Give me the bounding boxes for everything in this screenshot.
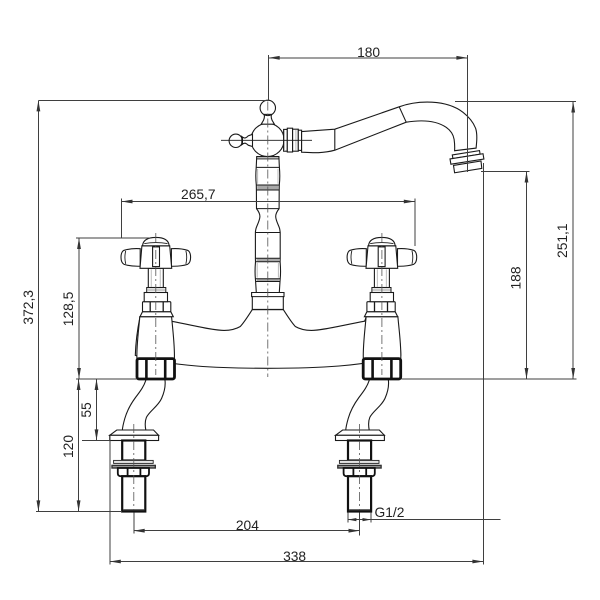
dim G1/2 (thread size) xyxy=(348,505,501,522)
dim 372,3 (left overall height) xyxy=(21,100,41,511)
dim 204 (tail centres) xyxy=(134,513,360,536)
side knob ball xyxy=(229,134,242,147)
finial neck xyxy=(261,114,274,124)
centrelines xyxy=(267,102,269,378)
svg-text:55: 55 xyxy=(79,402,94,418)
deck reference line xyxy=(76,378,576,380)
aerator xyxy=(450,151,484,173)
dim 188 xyxy=(481,172,530,380)
barrel shading xyxy=(257,169,278,278)
turned grooves (gray) xyxy=(257,185,278,190)
svg-text:188: 188 xyxy=(509,266,524,289)
svg-text:204: 204 xyxy=(236,518,259,533)
svg-text:120: 120 xyxy=(61,435,76,458)
right handle + valve column xyxy=(347,237,417,358)
central column assembly xyxy=(221,100,484,309)
svg-text:128,5: 128,5 xyxy=(61,291,76,326)
cross wings xyxy=(121,249,140,267)
handle hub xyxy=(140,246,172,268)
dim 128,5 xyxy=(61,238,150,379)
svg-text:338: 338 xyxy=(283,549,306,564)
FAUCET BODY xyxy=(110,100,484,511)
left mounting nut xyxy=(137,359,175,379)
left supply leg xyxy=(122,380,165,431)
spout axis line xyxy=(221,139,312,141)
top tangent extension line xyxy=(38,99,268,101)
dim 180 (top) xyxy=(269,45,468,172)
column baluster xyxy=(252,157,284,310)
dim 265,7 xyxy=(122,187,415,246)
dim 55 xyxy=(79,379,109,440)
bridge body beam xyxy=(135,310,401,369)
spout collar rings xyxy=(284,129,288,151)
right tail assembly xyxy=(336,430,385,512)
spout joint lines xyxy=(334,129,336,150)
cross front arm xyxy=(153,247,160,267)
valve body sphere xyxy=(251,123,284,156)
column section lines xyxy=(252,157,284,310)
right supply leg xyxy=(346,380,389,431)
dim 338 (overall width) xyxy=(110,163,484,564)
dim 120 xyxy=(36,379,122,511)
left handle + valve column xyxy=(121,237,191,358)
svg-text:265,7: 265,7 xyxy=(181,187,216,202)
svg-text:180: 180 xyxy=(357,45,380,60)
svg-text:251,1: 251,1 xyxy=(555,223,570,258)
right mounting nut xyxy=(363,359,401,379)
ball finial xyxy=(260,100,275,115)
dim 251,1 (right overall) xyxy=(455,102,576,380)
side knob connector xyxy=(242,134,253,146)
svg-text:G1/2: G1/2 xyxy=(375,505,405,520)
spout tube xyxy=(302,102,477,153)
left tail assembly xyxy=(110,430,159,512)
handle dome xyxy=(143,237,170,245)
svg-text:372,3: 372,3 xyxy=(21,290,36,325)
